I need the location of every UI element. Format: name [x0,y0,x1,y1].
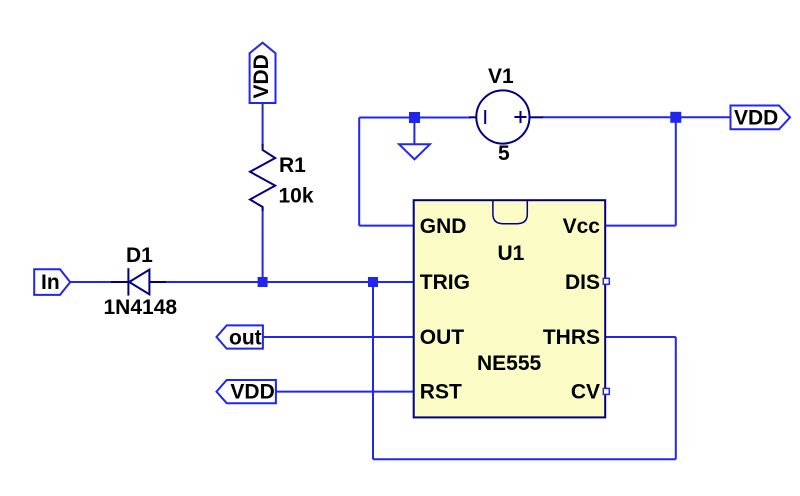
wire: V1 right lead to right rail junction [542,116,676,118]
node junction at ground/top rail [409,112,420,123]
svg-text:D1: D1 [126,244,153,267]
ground [399,123,430,159]
wire: right rail vertical down to Vcc row [675,117,677,225]
svg-text:U1: U1 [498,242,525,265]
port flag VDD (to RST) [217,380,276,404]
svg-text:VDD: VDD [734,106,778,129]
node junction TRIG row / feedback vertical [368,277,378,287]
wire: right rail junction to VDD flag [676,116,731,118]
unconnected pin marker DIS [603,278,609,284]
svg-text:DIS: DIS [565,271,600,294]
diode D1 [111,268,166,295]
port flag out [217,325,263,349]
svg-text:NE555: NE555 [477,352,542,375]
svg-text:R1: R1 [279,154,306,177]
wire: diode D1 to TRIG pin [165,281,414,283]
wire: Vcc pin to right rail [605,225,676,227]
wire: vertical from TRIG junction down to bottom rail [372,282,374,459]
resistor R1 [250,144,275,211]
wire: top rail from left rail to V1 left lead [359,117,471,119]
svg-text:TRIG: TRIG [420,271,470,294]
op-amp U1 body (NE555 IC) [414,200,606,417]
svg-text:RST: RST [420,381,462,404]
svg-text:5: 5 [498,142,510,165]
svg-text:Vcc: Vcc [563,215,601,238]
voltage source V1 [469,90,543,143]
svg-text:CV: CV [571,381,600,404]
port flag In [34,269,70,295]
svg-text:out: out [229,327,262,350]
svg-text:In: In [41,271,60,294]
svg-text:10k: 10k [279,185,314,208]
wire: In port to diode D1 [70,281,112,283]
wire: bottom rail horizontal [373,458,676,460]
wire: left rail vertical from top rail down to GND pin row [358,118,360,226]
wire: R1 bottom down to TRIG row junction [262,207,264,282]
svg-text:VDD: VDD [250,54,273,98]
wire: VDD top flag down to R1 top [262,103,264,146]
svg-text:1N4148: 1N4148 [104,296,178,319]
svg-text:V1: V1 [488,65,514,88]
wire: out port to OUT pin [263,336,414,338]
svg-text:VDD: VDD [230,381,274,404]
wire: VDD port to RST pin [276,391,414,393]
svg-text:THRS: THRS [543,326,600,349]
wire: left rail horizontal to GND pin [359,225,414,227]
port flag VDD (top, rotated) [250,43,276,103]
node junction R1 bottom on TRIG row [258,277,268,287]
node junction at right rail / VDD [670,112,681,123]
wire: THRS pin to right vertical [605,336,676,338]
svg-text:GND: GND [420,215,467,238]
port flag VDD (right rail) [731,106,791,130]
svg-text:OUT: OUT [420,326,465,349]
unconnected pin marker CV [603,388,609,394]
wire: right vertical from THRS row to bottom rail [675,337,677,459]
